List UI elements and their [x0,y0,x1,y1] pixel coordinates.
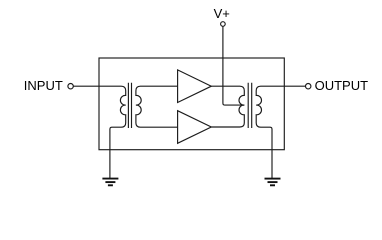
svg-text:V+: V+ [214,6,230,21]
transformer T1 secondary winding with wires to A1 and A2 inputs [136,86,178,127]
ground symbol (right) [265,179,281,186]
input terminal circle [68,84,73,89]
ground symbol (left) [102,179,118,186]
transformer T2 primary winding with wires from A1 and A2 outputs [211,86,244,127]
transformer T2 secondary winding with output wire and ground drop [256,86,305,178]
module box [99,58,284,150]
amplifier A2 (bottom) [178,111,212,144]
svg-text:INPUT: INPUT [24,78,63,93]
output terminal circle [306,84,311,89]
transformer T2 core [248,83,252,128]
transformer T1 core [128,83,131,128]
amplifier A1 (top) [178,70,212,103]
V+ terminal circle [221,22,226,27]
wire: V+ terminal to T2 primary center tap [223,26,244,105]
transformer T1 primary winding with input wire and ground drop [73,86,125,178]
svg-text:OUTPUT: OUTPUT [315,78,369,93]
